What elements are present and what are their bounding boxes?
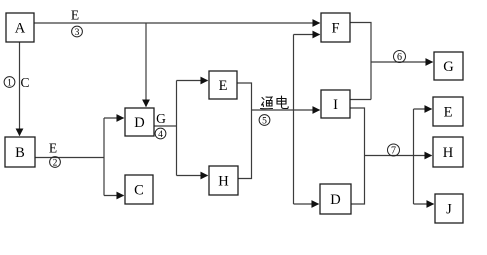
circled number 1 xyxy=(4,77,15,89)
box H2 xyxy=(433,137,463,167)
svg-text:C: C xyxy=(134,183,144,199)
circled number 7 xyxy=(388,144,400,157)
char dian xyxy=(281,96,283,104)
circled number 2 xyxy=(50,157,61,169)
wire trunk to F left xyxy=(294,34,320,36)
wire trunk vertical xyxy=(293,35,295,205)
wire column to J left xyxy=(414,203,434,205)
circled number 4 xyxy=(155,128,166,140)
svg-text:3: 3 xyxy=(75,28,80,38)
wire D1 right output xyxy=(154,125,177,127)
svg-text:E: E xyxy=(71,8,79,23)
svg-text:I: I xyxy=(333,97,338,113)
svg-text:H: H xyxy=(443,145,454,161)
circled number 5 xyxy=(259,115,270,127)
svg-text:7: 7 xyxy=(391,146,396,157)
char tong xyxy=(262,98,264,100)
svg-text:G: G xyxy=(156,111,166,126)
wire branch to C left xyxy=(104,195,124,197)
wire into E1 left xyxy=(177,80,208,82)
svg-text:D: D xyxy=(134,115,144,131)
wire F right output xyxy=(350,23,371,100)
svg-text:B: B xyxy=(15,145,25,161)
svg-text:G: G xyxy=(443,59,454,75)
wire I upper right output xyxy=(350,99,371,101)
svg-text:J: J xyxy=(446,202,452,218)
wire branch vertical xyxy=(103,118,105,196)
wire A right to F (top E line) xyxy=(34,22,320,24)
box B xyxy=(5,137,35,167)
box J xyxy=(435,194,463,223)
wire right column vertical xyxy=(413,109,415,204)
svg-text:F: F xyxy=(331,21,339,37)
box H1 xyxy=(209,166,238,195)
wire A bottom to B top xyxy=(19,42,21,136)
svg-text:D: D xyxy=(330,192,340,208)
circled number 3 xyxy=(72,26,83,38)
wire D2 output up xyxy=(351,156,365,205)
box D2 xyxy=(320,184,351,214)
box D1 xyxy=(125,108,154,136)
wire merge to G left xyxy=(371,61,433,63)
wire mid distribution vertical xyxy=(176,81,178,176)
wire branch to D1 left xyxy=(104,117,124,119)
wire into H1 left xyxy=(177,175,208,177)
svg-text:1: 1 xyxy=(7,79,12,89)
wire B right to branch xyxy=(35,157,105,159)
wire column to E2 left xyxy=(414,108,432,110)
box G xyxy=(434,52,463,80)
box F xyxy=(321,13,350,42)
wire trunk to D2 left xyxy=(294,203,319,205)
wire drop from top line into D1 top xyxy=(145,23,147,107)
svg-text:2: 2 xyxy=(53,159,58,169)
wire tongdian line into I xyxy=(252,109,320,111)
svg-text:E: E xyxy=(444,105,453,121)
svg-text:5: 5 xyxy=(262,117,267,127)
svg-text:H: H xyxy=(218,174,229,190)
box E2 xyxy=(433,97,463,126)
svg-text:E: E xyxy=(219,78,228,94)
box C xyxy=(125,175,153,204)
circled number 6 xyxy=(394,51,406,64)
wire H1 right up to bus xyxy=(238,110,252,179)
svg-text:C: C xyxy=(20,75,29,90)
wire seven line to H2 xyxy=(365,155,432,157)
svg-text:E: E xyxy=(49,141,57,156)
svg-text:6: 6 xyxy=(397,52,402,63)
box A xyxy=(6,13,34,42)
box I xyxy=(321,90,350,118)
wire I lower output down xyxy=(350,108,365,156)
wire E1 right down to bus xyxy=(237,83,252,110)
label tongdian (hand-drawn CJK) xyxy=(261,96,289,109)
svg-text:4: 4 xyxy=(158,130,163,140)
box E1 xyxy=(209,71,237,99)
svg-text:A: A xyxy=(15,21,26,37)
